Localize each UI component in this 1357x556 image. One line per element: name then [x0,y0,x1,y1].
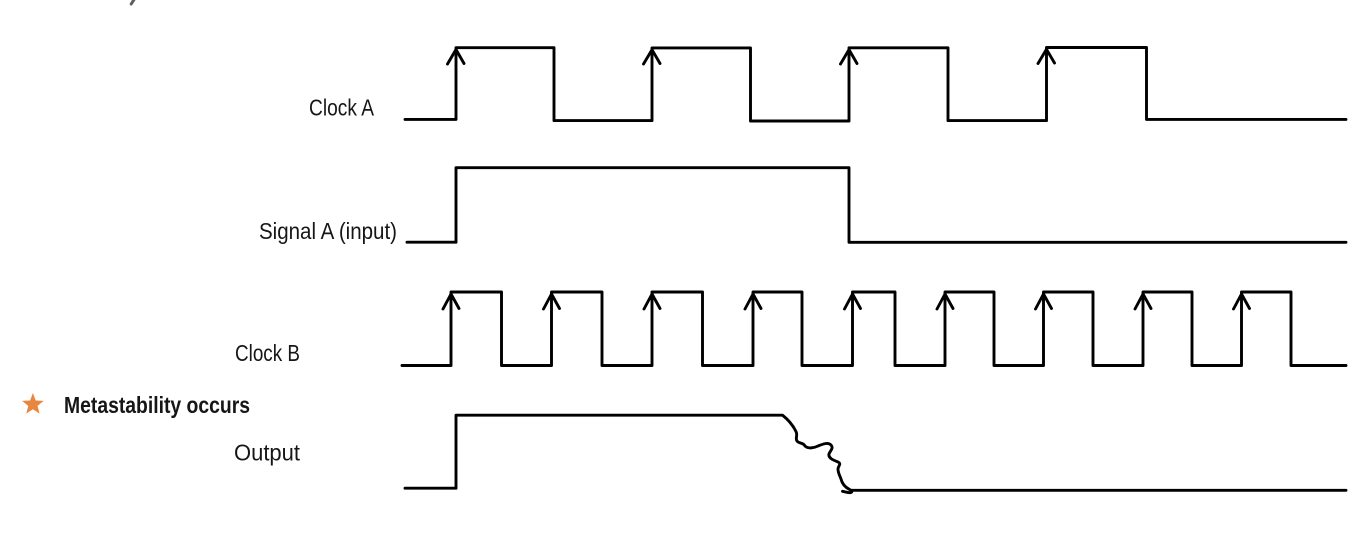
arrow Clock B rising edge 1 [443,294,459,309]
arrow Clock B rising edge 9 [1234,294,1250,309]
arrow Clock B rising edge 2 [544,294,560,309]
svg-text:Clock B: Clock B [235,340,300,366]
svg-text:Signal A (input): Signal A (input) [259,218,397,244]
wire Output low tail [851,489,1346,492]
marker star for metastability [22,393,44,414]
arrow Clock B rising edge 4 [745,294,761,309]
wire Output waveform with metastability glitch [405,415,852,492]
arrow Clock A rising edge 4 [1038,49,1055,63]
svg-text:Clock A: Clock A [309,95,375,121]
wire Clock B waveform [402,292,1346,366]
arrow Clock B rising edge 5 [845,294,861,309]
svg-text:Output: Output [234,440,301,466]
arrow Clock A rising edge 3 [841,50,858,64]
arrow Clock B rising edge 8 [1135,294,1151,309]
arrow Clock B rising edge 3 [644,294,660,309]
wire Clock A waveform [405,48,1346,122]
arrow Clock B rising edge 7 [1036,294,1052,309]
arrow Clock A rising edge 1 [448,50,465,65]
arrow Clock B rising edge 6 [937,294,953,309]
arrow Clock A rising edge 2 [644,50,661,64]
wire Signal A waveform [407,168,1346,243]
stray glyph fragment at top edge [131,0,134,4]
svg-text:Metastability occurs: Metastability occurs [64,392,250,418]
